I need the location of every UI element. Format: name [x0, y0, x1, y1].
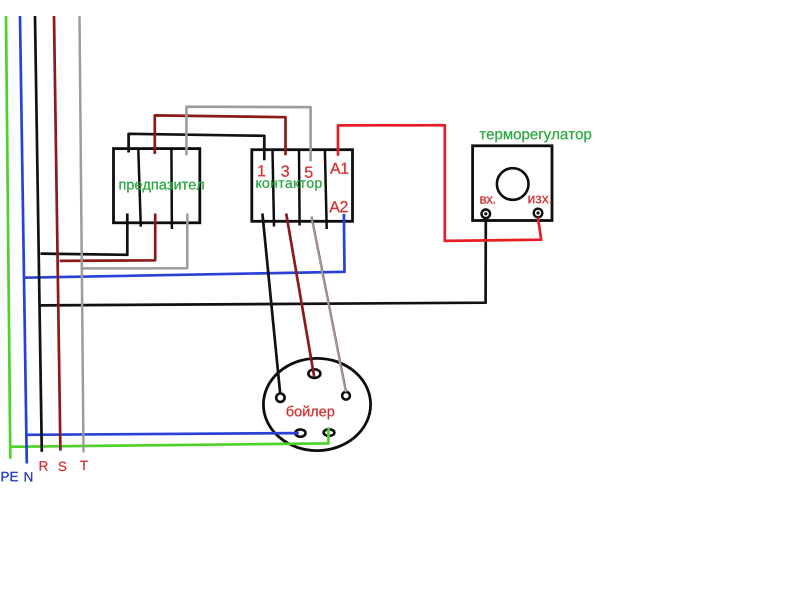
wire R vertical black [35, 16, 42, 452]
wire contactor 2 to boiler black [262, 214, 280, 394]
label pin 1 [258, 165, 265, 176]
fuse divider 1 [138, 150, 141, 227]
label pin A2 [329, 201, 347, 212]
label T [80, 461, 88, 470]
wire S to fuse [60, 214, 156, 261]
wire PE horizontal to boiler [9, 428, 329, 447]
label PE [2, 472, 18, 481]
label изх. [529, 196, 552, 204]
wire S vertical dark red [54, 16, 60, 451]
contactor divider 2 [298, 151, 301, 226]
label N [25, 472, 33, 481]
boiler terminal left [276, 394, 284, 402]
label R [40, 461, 48, 470]
wire T to fuse [83, 214, 188, 269]
boiler circle [263, 358, 370, 450]
wire contactor 4 to boiler dark red [286, 214, 314, 377]
wire N to contactor A2 [24, 214, 344, 278]
wire fuse to contactor 5 gray [186, 107, 310, 162]
wire R to thermostat vx [41, 218, 486, 306]
contactor divider 1 [273, 151, 275, 227]
label терморегулатор [480, 131, 592, 142]
boiler terminal right [342, 392, 350, 400]
thermostat knob [497, 168, 529, 200]
label бойлер [287, 406, 335, 420]
wire fuse to contactor 1 black [129, 134, 265, 161]
wire N to boiler [26, 433, 299, 435]
boiler terminal bottom-left [295, 429, 305, 436]
fuse box (предпазител) [114, 149, 200, 223]
thermostat terminal izx [534, 209, 543, 218]
thermostat box (терморегулатор) [473, 146, 552, 221]
label pin A1 [330, 163, 348, 174]
wire N vertical blue [20, 16, 27, 464]
boiler terminal bottom-right [324, 429, 335, 436]
contactor divider 3 [325, 151, 327, 230]
thermostat terminal vx [482, 210, 491, 219]
wire PE vertical green [6, 16, 10, 459]
label pin 3 [281, 165, 289, 176]
wire contactor A1 to thermostat izx red [338, 125, 541, 241]
wire fuse to contactor 3 dark red [155, 115, 286, 155]
label S [59, 462, 67, 472]
fuse divider 2 [170, 150, 173, 230]
label предпазител [120, 182, 204, 193]
contactor box (контактор) [252, 150, 353, 222]
label pin 5 [305, 167, 313, 178]
wire R to fuse [41, 214, 128, 255]
label контактор [256, 180, 321, 190]
boiler terminal top [308, 369, 320, 378]
wire T vertical gray [80, 16, 84, 453]
label вх. [480, 197, 495, 204]
wire contactor 6 to boiler gray-brown [312, 217, 347, 393]
